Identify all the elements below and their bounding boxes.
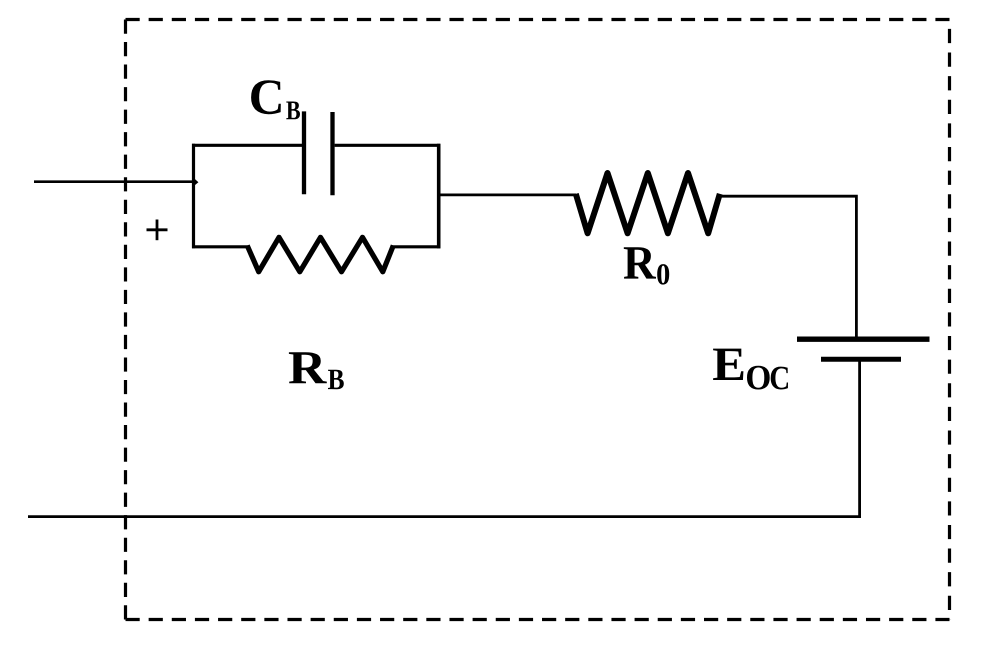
wire: RC box bottom edge, right stub bbox=[392, 245, 440, 248]
wire: left positive terminal lead bbox=[34, 180, 193, 183]
junction arrow tick bbox=[195, 179, 199, 186]
dashed enclosure (battery model boundary) bbox=[126, 20, 950, 620]
capacitor C_B left plate bbox=[302, 111, 306, 194]
wire: RC box top edge, left segment bbox=[192, 144, 303, 147]
capacitor C_B right plate bbox=[330, 112, 334, 195]
label R_B bbox=[289, 352, 344, 389]
wire: RC box right side bbox=[437, 144, 441, 249]
label C_B bbox=[251, 80, 300, 119]
battery E_OC positive plate (long) bbox=[797, 337, 930, 342]
resistor R_B zigzag bbox=[247, 237, 393, 271]
wire: link from RC pair to R0 bbox=[440, 193, 576, 196]
+ polarity mark bbox=[147, 220, 168, 241]
wire: RC box top edge, right segment bbox=[335, 144, 441, 147]
battery E_OC negative plate (short) bbox=[821, 357, 901, 362]
wire: battery negative lead and bottom return bbox=[28, 362, 860, 517]
label R_0 bbox=[624, 247, 669, 284]
wire: RC box left side bbox=[192, 144, 195, 249]
resistor R0 zigzag bbox=[576, 173, 720, 233]
wire: from R0 to battery corner bbox=[721, 196, 856, 337]
label E_OC bbox=[713, 349, 788, 390]
wire: RC box bottom edge, left stub bbox=[192, 245, 248, 248]
